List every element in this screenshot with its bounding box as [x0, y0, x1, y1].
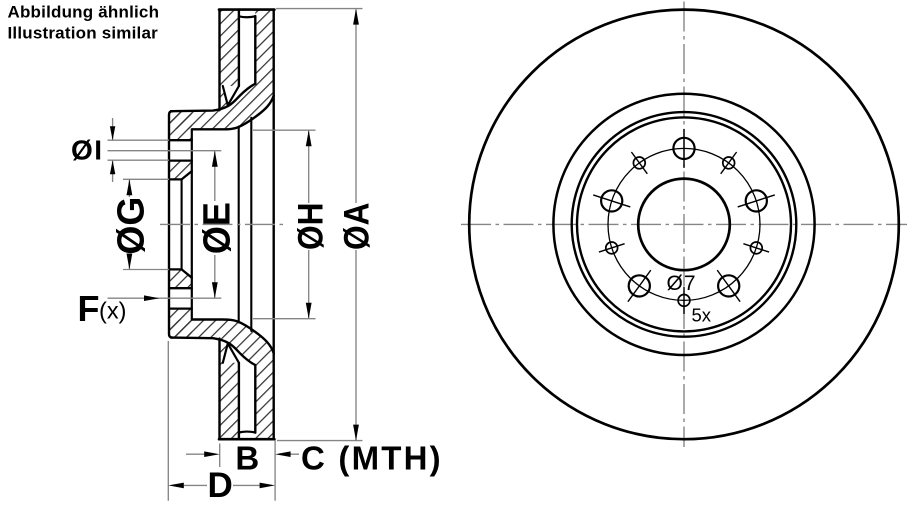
- bolt hole 5: [601, 190, 622, 211]
- dimension OE: [214, 151, 216, 298]
- bolt hole 2: [746, 190, 767, 211]
- bolt hole 4: [629, 275, 650, 296]
- friction surface inner circle: [553, 94, 814, 355]
- hub outer circles: [572, 112, 797, 337]
- small hole 1 (O7): [723, 157, 735, 169]
- front view centerlines: [683, 2, 685, 448]
- svg-text:ØI: ØI: [71, 134, 104, 165]
- svg-text:Ø7: Ø7: [667, 272, 697, 295]
- centerline of section: [160, 223, 285, 225]
- F(x) leader: [144, 295, 160, 301]
- svg-text:F: F: [78, 288, 100, 329]
- small hole 2 (O7): [750, 242, 762, 254]
- dimension OI (outside arrows): [112, 118, 114, 182]
- section view: hatched fills: [220, 10, 239, 110]
- extension lines: [276, 8, 363, 10]
- svg-text:ØE: ØE: [197, 202, 239, 254]
- outer circle OD: [469, 10, 899, 440]
- svg-text:5x: 5x: [692, 304, 712, 325]
- svg-text:Abbildung ähnlich: Abbildung ähnlich: [8, 3, 160, 22]
- small hole 4 (O7): [606, 242, 618, 254]
- dimension B (outside arrows): [186, 453, 299, 455]
- small hole 3 (O7): [678, 295, 690, 307]
- dimension OH: [308, 131, 310, 318]
- dimension OG: [128, 180, 130, 269]
- dimension OA: [355, 10, 357, 440]
- svg-text:ØH: ØH: [292, 203, 331, 251]
- bolt hole 3: [718, 275, 739, 296]
- svg-text:(x): (x): [99, 298, 126, 324]
- section outlines: [219, 8, 274, 11]
- small hole 5 (O7): [633, 157, 645, 169]
- svg-text:ØA: ØA: [338, 203, 377, 251]
- svg-text:D: D: [208, 466, 233, 505]
- bolt circle: [608, 148, 760, 300]
- svg-text:C (MTH): C (MTH): [301, 440, 443, 477]
- bolt hole 1: [673, 138, 694, 159]
- dimension D: [183, 484, 260, 486]
- svg-text:B: B: [235, 440, 259, 477]
- svg-text:ØG: ØG: [110, 197, 152, 255]
- svg-text:Illustration similar: Illustration similar: [8, 23, 159, 42]
- center bore: [638, 179, 730, 271]
